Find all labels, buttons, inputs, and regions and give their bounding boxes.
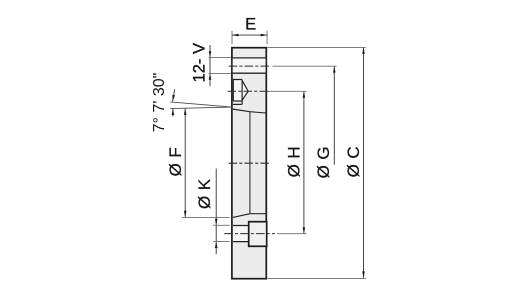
lower hole top edge <box>233 225 249 227</box>
lower hole bottom edge <box>233 241 249 243</box>
H arrow down <box>303 227 306 233</box>
dimension 12-V line <box>209 45 211 86</box>
dimension E line <box>232 34 267 36</box>
hub outline upper <box>250 112 267 113</box>
dimension K line <box>215 169 217 255</box>
F arrow down <box>184 211 187 217</box>
12-V extension line top <box>209 57 232 59</box>
K extension line bottom <box>213 241 230 243</box>
12-V extension line bottom <box>209 72 232 74</box>
K extension line top <box>213 224 230 226</box>
12-V arrow up <box>209 73 212 79</box>
lower hole / recess centerline <box>224 233 275 235</box>
flange body (outer cross-section rectangle) <box>232 48 266 279</box>
H bottom extension line <box>277 233 307 235</box>
tapped hole V top edge <box>233 57 266 59</box>
angle arrow lower <box>172 109 175 115</box>
dimension G line <box>333 66 335 164</box>
dimension E arrow right <box>261 34 267 37</box>
C bottom extension line <box>268 277 366 279</box>
K arrow down <box>215 219 218 225</box>
svg-text:E: E <box>245 16 256 34</box>
main axis centerline <box>229 162 269 164</box>
angle dimension tail lower <box>172 109 174 117</box>
angle arrow upper <box>172 95 175 102</box>
svg-text:Ø G: Ø G <box>314 146 333 178</box>
dimension H line <box>303 91 305 234</box>
svg-text:7° 7' 30": 7° 7' 30" <box>151 73 168 133</box>
drill point triangle <box>242 80 248 100</box>
svg-text:12- V: 12- V <box>191 43 209 82</box>
taper surface (lower) <box>233 214 250 218</box>
H top extension line <box>267 90 306 92</box>
socket hole bottom edge <box>233 100 242 102</box>
svg-text:Ø K: Ø K <box>195 178 214 209</box>
G top extension line <box>272 65 336 67</box>
C arrow up <box>362 48 365 54</box>
dimension E extension line left <box>231 31 233 45</box>
H arrow up <box>303 91 306 97</box>
step face line <box>233 103 242 105</box>
G arrow up <box>333 66 336 72</box>
socket hole rectangle outline <box>233 80 242 102</box>
tapped hole V bore band <box>233 59 266 73</box>
register recess rectangle <box>249 222 267 247</box>
F arrow up <box>184 109 187 115</box>
dimension E extension line right <box>266 31 268 45</box>
C arrow down <box>362 271 365 277</box>
taper surface (upper) 7deg <box>233 109 250 112</box>
K arrow up <box>215 242 218 248</box>
socket hole right edge extended to step <box>241 80 243 105</box>
taper angle helper line upper <box>170 102 232 107</box>
socket hole centerline <box>228 90 269 92</box>
F bottom extension line <box>182 217 230 219</box>
angle dimension tick upper <box>173 89 175 101</box>
12-V arrow down <box>209 51 212 57</box>
hub outline lower <box>250 213 267 215</box>
C top extension line <box>268 46 366 48</box>
tapped hole V bottom edge <box>233 72 266 74</box>
counterbore socket hole body <box>233 80 248 102</box>
dimension F line <box>184 109 186 218</box>
svg-text:Ø H: Ø H <box>284 146 303 177</box>
taper angle helper line lower <box>170 107 232 109</box>
dimension C line <box>363 48 365 278</box>
tapped hole V centerline <box>229 65 270 67</box>
dimension E arrow left <box>232 34 238 37</box>
inner bore vertical line <box>249 112 251 214</box>
svg-text:Ø C: Ø C <box>344 146 363 177</box>
svg-text:Ø F: Ø F <box>166 147 185 177</box>
lower through hole body <box>233 226 249 241</box>
